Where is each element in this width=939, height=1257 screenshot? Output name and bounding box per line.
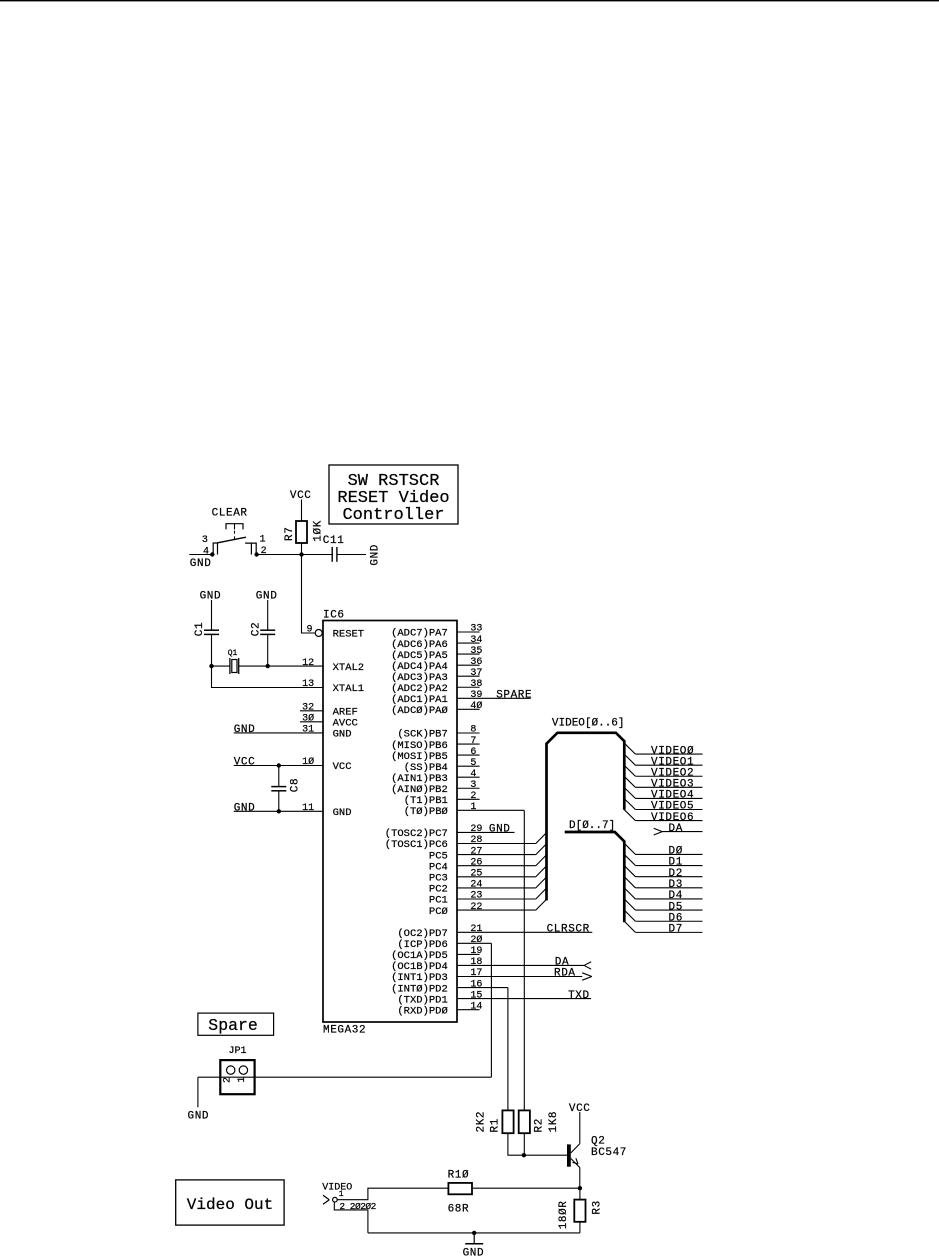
wire C2 to xtal node — [267, 635, 269, 666]
svg-text:4Ø: 4Ø — [470, 700, 482, 712]
crystal Q1 — [228, 649, 239, 674]
svg-text:DA: DA — [669, 823, 683, 835]
wire Q1 to C2 node — [239, 665, 268, 667]
svg-text:TXD: TXD — [568, 990, 590, 1002]
arrow RDA (output) — [582, 973, 592, 980]
bus VIDEO[0..6] — [547, 718, 625, 901]
pin 16 (INT0)PD2 — [391, 979, 508, 995]
svg-text:22: 22 — [470, 902, 482, 913]
junction GND rail — [472, 1231, 476, 1235]
svg-text:GND: GND — [370, 544, 382, 566]
svg-text:Spare: Spare — [208, 1016, 258, 1035]
svg-text:GND: GND — [234, 803, 256, 815]
wire GND to C2 — [267, 600, 269, 630]
svg-text:18ØR: 18ØR — [558, 1200, 570, 1229]
wire xtal1 to IC pin 13 — [212, 666, 324, 687]
junction emitter/R10/R3 — [578, 1186, 582, 1190]
wire C11 to GND — [337, 554, 366, 556]
resistor R1 2K2 — [476, 1110, 514, 1133]
svg-text:GND: GND — [489, 824, 511, 836]
pin 37 (ADC3)PA3 — [391, 668, 482, 684]
svg-text:MEGA32: MEGA32 — [323, 1025, 366, 1037]
wire reset node to IC pin 9 — [302, 555, 316, 634]
svg-text:R2: R2 — [534, 1118, 546, 1132]
svg-text:4: 4 — [470, 769, 476, 780]
wire PB0 down to R2 — [523, 810, 525, 1110]
wire net D3 — [624, 877, 702, 891]
svg-text:VCC: VCC — [290, 490, 312, 502]
junction VCC/C8 — [277, 763, 281, 767]
svg-text:31: 31 — [302, 725, 314, 736]
pin 35 (ADC5)PA5 — [391, 646, 482, 662]
wire node to R3 — [579, 1188, 581, 1199]
wire R1 to base — [508, 1133, 567, 1155]
capacitor C2 — [251, 622, 276, 636]
wire R7 to node — [301, 543, 303, 555]
svg-text:3Ø: 3Ø — [302, 713, 314, 725]
pin 3 (AIN0)PB2 — [391, 780, 480, 796]
svg-text:2K2: 2K2 — [476, 1111, 488, 1133]
junction C1/Q1/pin13 — [209, 664, 213, 668]
wire VCC to R7 — [301, 500, 303, 522]
svg-text:7: 7 — [470, 736, 476, 747]
svg-text:R1Ø: R1Ø — [448, 1170, 470, 1182]
svg-text:32: 32 — [302, 703, 314, 714]
wire net D6 — [624, 910, 702, 924]
pin 34 (ADC6)PA6 — [391, 635, 482, 651]
wire switch pin4 to GND — [189, 554, 212, 556]
svg-text:Q1: Q1 — [228, 649, 238, 658]
svg-text:18: 18 — [470, 957, 482, 968]
svg-text:GND: GND — [190, 558, 212, 570]
svg-text:VCC: VCC — [569, 1103, 591, 1115]
wire connector pin1 to R10 rail — [338, 1188, 449, 1200]
svg-text:16: 16 — [470, 979, 482, 990]
wire net VIDEO1 — [624, 754, 702, 768]
svg-text:28: 28 — [470, 835, 482, 846]
pin 11 GND — [234, 803, 352, 819]
svg-text:GND: GND — [333, 807, 352, 819]
svg-text:VIDEO[Ø..6]: VIDEO[Ø..6] — [552, 718, 625, 730]
svg-text:C2: C2 — [251, 622, 263, 636]
svg-text:SW RSTSCR: SW RSTSCR — [348, 472, 440, 491]
svg-text:CLRSCR: CLRSCR — [547, 924, 590, 936]
wire JP1 to PD6 net — [198, 1076, 492, 1078]
pin 23 PC1 — [429, 888, 547, 907]
op-amp IC6 MEGA32 body — [323, 609, 457, 1036]
svg-text:3: 3 — [202, 535, 208, 546]
wire switch pin2 to R7 node — [257, 554, 302, 556]
svg-text:23: 23 — [470, 891, 482, 902]
pin 15 (TXD)PD1 — [397, 990, 591, 1006]
pin 33 (ADC7)PA7 — [391, 624, 482, 640]
pin 21 (OC2)PD7 — [397, 924, 592, 940]
junction C2/Q1/pin12 — [266, 664, 270, 668]
junction switch pin4 — [210, 552, 214, 556]
pin 29 (TOSC2)PC7 — [385, 824, 515, 840]
svg-text:GND: GND — [256, 591, 278, 603]
pin 28 (TOSC1)PC6 — [385, 833, 547, 852]
pin 30 AVCC — [300, 713, 358, 730]
pin 14 (RXD)PD0 — [397, 1001, 482, 1017]
wire net D1 — [624, 854, 702, 868]
svg-text:25: 25 — [470, 869, 482, 880]
svg-text:8: 8 — [470, 725, 476, 736]
svg-text:1: 1 — [339, 1190, 344, 1199]
wire JP1 pin2 to GND — [197, 1077, 199, 1107]
pin 18 (OC1B)PD4 — [391, 957, 584, 973]
svg-text:(RXD)PDØ: (RXD)PDØ — [397, 1005, 447, 1017]
svg-text:C11: C11 — [323, 535, 345, 547]
svg-text:17: 17 — [470, 968, 482, 979]
capacitor C11 — [323, 535, 345, 562]
svg-text:VCC: VCC — [234, 757, 256, 769]
svg-text:13: 13 — [302, 679, 314, 690]
wire net VIDEO3 — [624, 776, 702, 790]
svg-text:5: 5 — [470, 758, 476, 769]
junction R7/C11/reset node — [299, 552, 303, 556]
ground GND symbol bottom — [463, 1233, 485, 1257]
svg-text:68R: 68R — [448, 1204, 470, 1216]
svg-text:R1: R1 — [490, 1118, 502, 1132]
pin 36 (ADC4)PA4 — [391, 657, 482, 673]
svg-text:XTAL2: XTAL2 — [333, 662, 365, 674]
pin 20 (ICP)PD6 — [397, 934, 491, 951]
pin 26 PC4 — [429, 855, 547, 874]
svg-text:24: 24 — [470, 880, 482, 891]
svg-text:C8: C8 — [289, 778, 301, 792]
resistor R7 10K — [284, 520, 324, 543]
svg-text:9: 9 — [306, 625, 312, 636]
junction R2/base — [522, 1153, 526, 1157]
svg-text:12: 12 — [302, 658, 314, 669]
svg-text:(ADCØ)PAØ: (ADCØ)PAØ — [391, 705, 448, 717]
svg-text:3: 3 — [470, 780, 476, 791]
pin 27 PC5 — [429, 844, 547, 863]
wire net D5 — [624, 899, 702, 913]
pin 9 RESET — [306, 625, 364, 641]
wire net VIDEO0 — [624, 743, 702, 757]
svg-text:GND: GND — [200, 591, 222, 603]
svg-text:JP1: JP1 — [229, 1046, 247, 1057]
pin 12 XTAL2 — [302, 658, 364, 674]
pin 5 (SS)PB4 — [404, 758, 480, 774]
svg-text:VCC: VCC — [333, 761, 352, 773]
svg-text:CLEAR: CLEAR — [212, 507, 248, 519]
resistor R3 180R — [558, 1200, 603, 1230]
svg-text:35: 35 — [470, 646, 482, 657]
svg-text:1K8: 1K8 — [548, 1111, 560, 1133]
svg-text:Video Out: Video Out — [187, 1196, 273, 1214]
svg-text:2: 2 — [222, 1077, 233, 1083]
svg-text:39: 39 — [470, 690, 482, 701]
wire net D7 — [624, 921, 702, 935]
wire R10 to output node — [472, 1187, 580, 1189]
svg-text:PCØ: PCØ — [429, 906, 448, 918]
wire R2 to base node — [523, 1133, 525, 1155]
pin 32 AREF — [300, 703, 358, 719]
pin 1 (T0)PB0 — [404, 802, 525, 818]
svg-text:1: 1 — [470, 802, 476, 813]
pin 6 (MOSI)PB5 — [391, 747, 480, 763]
wire net D4 — [624, 888, 702, 902]
arrow DA (input) — [584, 962, 591, 969]
switch S1 CLEAR (pushbutton) — [202, 507, 267, 557]
pin 22 PC0 — [429, 899, 547, 918]
wire PD6 down to JP1 net — [490, 943, 492, 1077]
note box Spare — [198, 1013, 274, 1035]
wire xtal node to Q1 — [212, 665, 230, 667]
svg-text:15: 15 — [470, 990, 482, 1001]
capacitor C8 — [271, 778, 301, 792]
wire net VIDEO2 — [624, 765, 702, 779]
svg-text:4: 4 — [203, 547, 209, 558]
pin 10 VCC — [234, 756, 352, 773]
connector X1 VIDEO — [322, 1182, 376, 1212]
svg-text:RESET: RESET — [333, 629, 365, 641]
svg-text:C1: C1 — [194, 622, 206, 636]
svg-text:RDA: RDA — [554, 968, 576, 980]
svg-text:6: 6 — [470, 747, 476, 758]
svg-text:29: 29 — [470, 824, 482, 835]
svg-text:2: 2 — [470, 791, 476, 802]
svg-text:BC547: BC547 — [591, 1147, 627, 1159]
pin 25 PC3 — [429, 866, 547, 885]
svg-text:(TØ)PBØ: (TØ)PBØ — [404, 806, 448, 818]
svg-text:37: 37 — [470, 668, 482, 679]
wire R3 to bottom rail — [579, 1222, 581, 1233]
pin 24 PC2 — [429, 877, 547, 896]
note box SW RSTSCR RESET Video Controller — [329, 465, 458, 525]
svg-text:D[Ø..7]: D[Ø..7] — [569, 820, 615, 832]
svg-text:34: 34 — [470, 635, 482, 646]
svg-text:36: 36 — [470, 657, 482, 668]
svg-text:Controller: Controller — [342, 506, 444, 525]
wire net D0 — [624, 843, 702, 857]
wire net VIDEO6 — [624, 810, 702, 824]
svg-text:38: 38 — [470, 679, 482, 690]
svg-text:GND: GND — [188, 1111, 210, 1123]
pin 19 (OC1A)PD5 — [391, 946, 482, 962]
svg-text:GND: GND — [463, 1248, 485, 1257]
pin 9 RESET circle — [315, 630, 322, 637]
svg-text:33: 33 — [470, 624, 482, 635]
junction switch pin2 — [254, 552, 258, 556]
pin 40 (ADC0)PA0 — [391, 700, 482, 717]
svg-text:GND: GND — [234, 724, 256, 736]
svg-text:XTAL1: XTAL1 — [333, 683, 365, 695]
wire net D2 — [624, 866, 702, 880]
svg-text:SPARE: SPARE — [496, 690, 532, 702]
node DA arrow (right) — [654, 823, 703, 835]
pin 13 XTAL1 — [302, 679, 364, 695]
svg-text:1Ø: 1Ø — [302, 756, 314, 768]
svg-text:Q2: Q2 — [591, 1136, 605, 1148]
wire PD2 down to R1 — [507, 988, 509, 1111]
svg-text:R3: R3 — [591, 1200, 603, 1214]
pin 2 (T1)PB1 — [404, 791, 480, 807]
svg-text:VIDEO: VIDEO — [322, 1182, 352, 1193]
resistor R2 1K8 — [519, 1110, 560, 1133]
svg-text:11: 11 — [302, 803, 314, 814]
bus D[0..7] — [565, 820, 625, 923]
wire net VIDEO4 — [624, 788, 702, 802]
svg-text:1: 1 — [260, 535, 266, 546]
svg-text:2Ø: 2Ø — [470, 934, 482, 946]
svg-text:GND: GND — [333, 729, 352, 741]
transistor Q2 BC547 — [569, 1112, 627, 1188]
svg-text:2 2Ø2Ø2: 2 2Ø2Ø2 — [339, 1201, 376, 1212]
svg-text:D7: D7 — [669, 924, 683, 936]
svg-text:IC6: IC6 — [323, 609, 345, 621]
pin 17 (INT1)PD3 — [391, 968, 582, 984]
svg-text:27: 27 — [470, 846, 482, 857]
capacitor C1 — [194, 622, 219, 636]
svg-text:14: 14 — [470, 1001, 482, 1012]
wire connector pin2 to bottom rail — [334, 1202, 368, 1233]
wire xtal2 node to IC pin 12 — [268, 665, 323, 667]
wire node to C11 — [302, 554, 332, 556]
wire VCC node to C8 — [278, 766, 280, 787]
svg-text:19: 19 — [470, 946, 482, 957]
wire C8 to GND node — [278, 791, 280, 811]
pin 8 (SCK)PB7 — [397, 725, 479, 741]
junction GND/C8 — [277, 809, 281, 813]
wire bottom rail — [368, 1232, 580, 1234]
pin 4 (AIN1)PB3 — [391, 769, 480, 785]
jumper JP1 — [220, 1046, 254, 1094]
wire net VIDEO5 — [624, 799, 702, 813]
svg-text:21: 21 — [470, 924, 482, 935]
pin 39 (ADC1)PA1 — [391, 690, 531, 706]
resistor R10 68R — [448, 1170, 472, 1216]
note box Video Out — [176, 1180, 284, 1225]
svg-text:26: 26 — [470, 857, 482, 868]
wire GND to C1 — [211, 600, 213, 630]
svg-text:R7: R7 — [284, 527, 296, 541]
pin 38 (ADC2)PA2 — [391, 679, 482, 695]
pin 7 (MISO)PB6 — [391, 736, 480, 752]
wire C1 to xtal node — [211, 635, 213, 666]
svg-text:2: 2 — [261, 546, 267, 557]
pin 31 GND — [234, 725, 352, 741]
